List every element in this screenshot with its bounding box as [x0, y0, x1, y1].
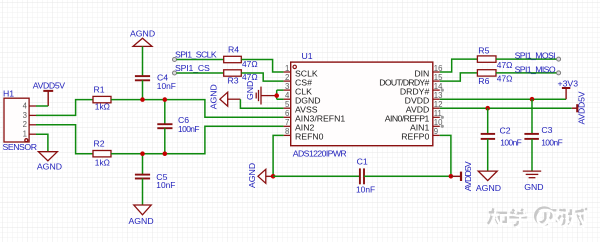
- wire H1 pin3 to R1: [36, 100, 93, 116]
- ground GND (rotated, at CLK/DGND): [256, 87, 277, 105]
- svg-text:4: 4: [23, 101, 28, 110]
- net port SPI1_MISO: [557, 71, 561, 75]
- svg-text:REFP0: REFP0: [401, 132, 429, 142]
- wire AGND to AVSS: [228, 98, 241, 100]
- wire H1 pin4 to AVDD5V: [36, 105, 48, 107]
- wire C2 top: [487, 108, 489, 134]
- junction at DVDD/C3: [530, 97, 535, 102]
- wire C3 to GND: [531, 139, 533, 171]
- svg-text:10nF: 10nF: [157, 81, 176, 91]
- svg-text:1kΩ: 1kΩ: [95, 158, 110, 168]
- wire AGND junction to C1: [273, 175, 360, 177]
- wire C4 to R1 line: [142, 80, 144, 99]
- U1 right pin numbers: [434, 64, 443, 136]
- wire R6 to SPI1_MISO: [496, 72, 557, 74]
- wire R4 to SCLK (pin 1): [241, 60, 283, 73]
- svg-text:9: 9: [434, 127, 438, 136]
- junction at REFP0/C1/AVDD5V: [449, 174, 454, 179]
- svg-text:AGND: AGND: [247, 163, 257, 188]
- wire C6 bottom to R2 line: [164, 128, 166, 154]
- net port SPI1_MOSI: [557, 57, 561, 61]
- resistor R2: [93, 151, 111, 157]
- ground GND (below C3): [523, 171, 541, 178]
- net port SPI1_SCLK: [173, 58, 177, 62]
- svg-text:SPI1_MOSI: SPI1_MOSI: [515, 50, 556, 60]
- net port SPI1_CS: [173, 71, 177, 75]
- wire H1 pin1 to AGND: [36, 134, 48, 152]
- svg-text:GND: GND: [245, 81, 255, 100]
- svg-text:AGND: AGND: [129, 216, 154, 226]
- svg-text:R5: R5: [478, 45, 489, 55]
- svg-text:U1: U1: [302, 51, 313, 61]
- svg-text:14: 14: [434, 82, 443, 91]
- svg-text:AGND: AGND: [37, 161, 62, 171]
- svg-text:SENSOR: SENSOR: [3, 142, 38, 152]
- junction at GND tie: [274, 93, 279, 98]
- wire R1 output to AIN3 (pin 6): [111, 100, 284, 118]
- U1 unconnected pin dots (14,11,10): [441, 89, 444, 92]
- svg-text:2: 2: [285, 73, 289, 82]
- wire AVDD (pin 12) to AVDD5V: [440, 107, 572, 109]
- capacitor C6: [157, 124, 172, 128]
- svg-text:AVDD5V: AVDD5V: [577, 91, 587, 124]
- capacitor C2: [481, 134, 495, 139]
- svg-text:11: 11: [434, 109, 442, 118]
- wire C6 top: [164, 100, 166, 125]
- wire junction up to REFP0 (pin 9): [440, 135, 451, 176]
- svg-text:GND: GND: [524, 182, 543, 192]
- svg-text:3: 3: [285, 82, 289, 91]
- wire C5 top: [142, 154, 144, 175]
- wire C3 top from DVDD: [531, 99, 533, 134]
- svg-text:SPI1_MISO: SPI1_MISO: [515, 65, 556, 75]
- ground AGND (rotated, at AVSS pin 5): [220, 92, 228, 106]
- svg-text:47Ω: 47Ω: [497, 73, 513, 83]
- svg-text:10nF: 10nF: [356, 185, 375, 195]
- svg-text:ADS1220IPWR: ADS1220IPWR: [293, 149, 347, 159]
- junction at AVDD/C2: [485, 106, 490, 111]
- wire DIN (pin 16) to R5: [440, 59, 478, 72]
- wire R2 output to AIN2 (pin 7): [111, 126, 284, 153]
- svg-text:7: 7: [285, 118, 289, 127]
- svg-text:4: 4: [285, 91, 290, 100]
- svg-text:REFN0: REFN0: [295, 132, 324, 142]
- svg-text:R4: R4: [228, 45, 239, 55]
- power flag AVDD5V (rotated, at REFP0): [451, 172, 461, 181]
- svg-text:100nF: 100nF: [500, 137, 522, 147]
- wire R5 to SPI1_MOSI: [496, 58, 557, 60]
- U1 right pin names: [379, 68, 429, 141]
- wire REFN0 (pin 8) to AGND/C1: [273, 135, 284, 176]
- wire CLK/DGND tie: [277, 90, 284, 99]
- capacitor C1: [360, 168, 364, 184]
- wire SPI1_CS to R3: [177, 72, 224, 74]
- resistor R3: [224, 70, 242, 76]
- svg-text:6: 6: [285, 109, 289, 118]
- wire C2 to AGND: [487, 139, 489, 171]
- wire DOUT/DRDY# (pin 15) to R6: [440, 73, 478, 81]
- svg-text:8: 8: [285, 127, 289, 136]
- svg-text:+3V3: +3V3: [558, 78, 579, 88]
- svg-text:1kΩ: 1kΩ: [95, 101, 110, 111]
- svg-text:R2: R2: [94, 138, 105, 148]
- ground AGND (below C5): [134, 205, 151, 215]
- power flag AVDD5V (rotated, right): [572, 104, 578, 112]
- svg-text:AVDD5V: AVDD5V: [463, 161, 473, 191]
- wire H1 pin2 to R2: [36, 125, 93, 154]
- svg-text:1: 1: [23, 130, 27, 139]
- wire AGND to C4: [142, 46, 144, 76]
- svg-text:C1: C1: [357, 157, 368, 167]
- svg-text:1: 1: [285, 64, 289, 73]
- junction at C6 bottom / R2 line: [163, 151, 168, 156]
- U1 right pin stubs: [433, 72, 440, 135]
- capacitor C4: [135, 76, 150, 80]
- svg-text:47Ω: 47Ω: [497, 60, 513, 70]
- svg-text:R6: R6: [478, 76, 489, 86]
- capacitor C3: [524, 134, 539, 139]
- wire DVDD (pin 13) to +3V3: [440, 98, 566, 100]
- svg-text:C3: C3: [541, 125, 552, 135]
- ground AGND (below C2): [478, 171, 497, 181]
- svg-text:5: 5: [285, 100, 290, 109]
- svg-text:AGND: AGND: [476, 183, 501, 193]
- svg-text:SPI1_CS: SPI1_CS: [175, 63, 210, 73]
- junction at C4/R1 line: [140, 97, 145, 102]
- capacitor C5: [135, 175, 150, 179]
- junction at C6 top / R1 line: [163, 97, 168, 102]
- junction at REFN0/AGND/C1: [271, 174, 276, 179]
- svg-text:R1: R1: [94, 85, 105, 95]
- connector H1 body: [4, 98, 36, 142]
- op IC U1 ADS1220 body: [291, 62, 433, 146]
- svg-text:47Ω: 47Ω: [242, 59, 258, 69]
- svg-text:H1: H1: [3, 89, 14, 99]
- svg-text:R3: R3: [228, 76, 239, 86]
- svg-text:10: 10: [434, 118, 443, 127]
- U1 left pin numbers: [285, 64, 290, 136]
- svg-text:AGND: AGND: [130, 29, 155, 39]
- H1 pin numbers: [23, 101, 28, 138]
- wire SPI1_SCLK to R4: [177, 59, 224, 61]
- watermark 知乎 @弥城: [488, 208, 589, 228]
- svg-text:AVDD5V: AVDD5V: [33, 80, 66, 90]
- U1 left pin names: [295, 68, 345, 141]
- svg-text:AGND: AGND: [208, 84, 218, 109]
- ground AGND (H1 pin1): [38, 152, 57, 161]
- ground AGND (rotated, at REFN0/C1): [258, 169, 266, 183]
- U1 pin-1 marker: [293, 65, 296, 68]
- resistor R1: [93, 96, 111, 102]
- resistor R5: [477, 56, 496, 62]
- wire C1 to REFP0 junction: [364, 175, 451, 177]
- resistor R6: [477, 70, 496, 76]
- wire C5 to AGND: [142, 179, 144, 206]
- power flag AVDD5V (at H1 pin 4): [43, 91, 53, 106]
- wire R3 to CS# (pin 2): [241, 73, 283, 81]
- svg-text:3: 3: [23, 111, 27, 120]
- svg-text:100nF: 100nF: [541, 137, 563, 147]
- resistor R4: [224, 56, 242, 62]
- junction at C5 / R2 line: [140, 151, 145, 156]
- svg-text:C2: C2: [500, 126, 511, 136]
- U1 left pin stubs: [284, 72, 291, 135]
- svg-text:10nF: 10nF: [156, 180, 175, 190]
- power flag +3V3: [562, 88, 570, 99]
- svg-text:2: 2: [23, 120, 27, 129]
- svg-text:SPI1_SCLK: SPI1_SCLK: [175, 50, 217, 60]
- svg-text:100nF: 100nF: [178, 124, 200, 134]
